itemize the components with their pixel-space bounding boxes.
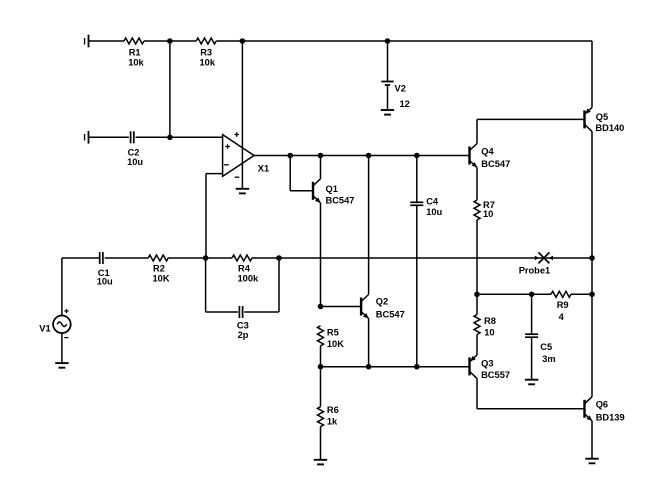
wire [144,40,196,42]
svg-text:1k: 1k [327,416,338,426]
svg-text:R9: R9 [557,300,569,310]
transistor Q5 [585,107,625,132]
svg-text:Probe1: Probe1 [519,265,551,275]
svg-text:10u: 10u [426,207,442,217]
svg-text:10K: 10K [327,339,344,349]
node B [318,364,324,370]
wire [216,40,592,42]
port I (bottom input) [83,131,88,144]
node out3 [366,153,372,159]
wire inverting input [206,174,223,258]
wire [531,294,533,334]
wire [387,85,389,110]
wire Q2 collector [368,156,370,295]
transistor Q2 [361,295,405,320]
svg-text:C5: C5 [540,342,552,352]
wire Q5 collector [591,131,593,294]
wire [476,294,478,314]
source V1 [39,309,70,338]
node out2 [318,153,324,159]
wire [169,41,171,137]
wire Q1 base [290,156,313,191]
transistor Q3 [470,355,511,380]
node out4 [414,153,420,159]
node J3 [385,38,391,44]
svg-text:100k: 100k [238,273,260,283]
svg-text:R2: R2 [153,264,165,274]
port I (top input) [83,35,88,48]
wire [105,257,149,259]
wire [477,293,551,295]
svg-text:BC547: BC547 [481,159,510,169]
wire [244,258,279,312]
svg-text:Q5: Q5 [596,112,608,122]
svg-text:BC547: BC547 [326,196,355,206]
svg-text:R6: R6 [327,405,339,415]
svg-text:X1: X1 [258,163,269,173]
svg-text:R5: R5 [327,327,339,337]
node C2-R1 junction [167,135,173,141]
svg-text:C4: C4 [426,196,439,206]
wire [252,257,592,259]
transistor Q6 [585,397,625,423]
capacitor C1 [97,252,113,286]
wire node A to Q2 base [321,306,362,308]
wire [591,41,593,107]
resistor R6 [318,405,339,427]
ground [55,363,68,368]
wire [320,346,322,367]
wire [320,367,322,407]
svg-text:R3: R3 [200,47,212,57]
ground [585,459,598,464]
wire [321,366,470,368]
svg-text:BD140: BD140 [595,123,624,133]
svg-text:3m: 3m [542,354,555,364]
node right-main [589,255,595,261]
wire op-amp supply [241,41,243,189]
svg-text:2p: 2p [238,330,249,340]
resistor R4 [232,255,259,283]
wire [531,337,533,380]
wire [416,156,418,203]
node J2 [240,38,246,44]
svg-text:Q4: Q4 [481,146,494,156]
capacitor C3 [237,306,249,340]
svg-text:R4: R4 [238,264,251,274]
ground [314,460,327,465]
resistor R5 [318,326,345,349]
wire op-amp output [254,155,470,157]
wire [416,205,418,366]
svg-text:I: I [83,36,86,46]
wire Q4 collector [477,119,585,143]
wire [61,333,63,363]
svg-text:10K: 10K [153,273,170,283]
battery V2 [381,82,410,109]
svg-text:10u: 10u [127,157,143,167]
resistor R7 [474,200,495,220]
resistor R1 [124,38,145,67]
resistor R8 [474,315,496,338]
svg-text:10k: 10k [128,57,144,67]
svg-text:V2: V2 [395,83,406,93]
wire [89,136,129,138]
wire [571,293,592,295]
wire Q6 collector [591,294,593,397]
wire Q6 emitter [591,421,593,459]
ground [381,110,394,115]
wire [61,258,63,316]
wire [320,427,322,460]
svg-text:Q1: Q1 [326,184,338,194]
wire [89,40,125,42]
ground [236,189,249,194]
svg-text:R1: R1 [129,47,141,57]
wire [476,220,478,294]
node D (feedback) [203,255,209,261]
transistor Q4 [470,144,511,169]
svg-text:Q3: Q3 [481,358,493,368]
node E3 [414,364,420,370]
wire [206,258,238,312]
capacitor C2 [127,131,143,167]
node F2 [276,255,282,261]
svg-text:10u: 10u [97,276,113,286]
svg-text:10k: 10k [200,57,216,67]
wire Q1 emitter [320,203,322,307]
node E2 [366,364,372,370]
svg-text:R8: R8 [484,316,496,326]
ground [525,380,538,385]
node F [474,292,480,298]
wire Q4 emitter [476,168,478,201]
resistor R3 [196,38,216,67]
svg-text:V1: V1 [39,324,50,334]
wire Q3 collector [477,378,585,408]
svg-text:10: 10 [484,327,494,337]
wire [136,136,223,138]
node A [318,304,324,310]
svg-text:12: 12 [400,99,410,109]
transistor Q1 [313,179,354,206]
svg-text:BD139: BD139 [596,412,625,422]
wire Q1 collector [320,156,322,179]
svg-text:4: 4 [559,312,565,322]
node C5 top [529,292,535,298]
svg-text:10: 10 [483,209,493,219]
probe Probe1 [519,252,553,275]
svg-text:BC557: BC557 [481,370,510,380]
svg-text:I: I [83,133,86,143]
wire [168,257,232,259]
svg-text:C3: C3 [237,320,249,330]
svg-text:Q2: Q2 [376,297,388,307]
svg-text:C2: C2 [128,147,140,157]
capacitor C5 [525,334,556,364]
node out1 [287,153,293,159]
svg-text:BC547: BC547 [376,310,405,320]
op-amp X1 [223,132,270,177]
wire [476,335,478,355]
wire Q2 emitter [368,319,370,367]
svg-text:Q6: Q6 [596,400,608,410]
resistor R9 [551,291,571,322]
resistor R2 [148,255,170,283]
wire [62,257,100,259]
node J1 [167,38,173,44]
capacitor C4 [410,196,442,217]
node right-R9 [589,292,595,298]
wire [387,41,389,82]
